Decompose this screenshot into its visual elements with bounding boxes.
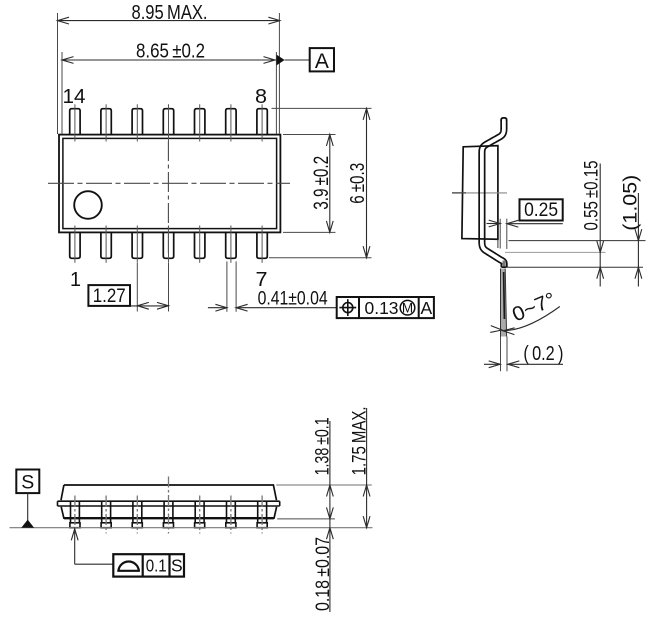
side view gull-wing lead	[479, 118, 507, 267]
dimension text 6 +-0.3	[347, 163, 369, 204]
front view lead 7	[257, 496, 267, 534]
front view body bottom edge	[64, 517, 274, 519]
dimension 8.95 MAX extension lines	[58, 13, 280, 134]
dimension 0.25 arrows	[487, 220, 563, 227]
svg-text:0.55 ±0.15: 0.55 ±0.15	[580, 160, 602, 230]
datum A solid triangle	[277, 55, 285, 66]
svg-text:M: M	[402, 301, 413, 316]
pin top row 1 (pins 8-14 side)	[70, 104, 80, 141]
dimension 1.27 line and arrows	[88, 302, 168, 309]
svg-text:0.1: 0.1	[146, 555, 167, 575]
pin bottom row 4 (pins 1-7 side)	[163, 226, 173, 263]
pin top row 2 (pins 8-14 side)	[101, 104, 111, 141]
pin top row 3 (pins 8-14 side)	[132, 104, 142, 141]
svg-text:6 ±0.3: 6 ±0.3	[347, 163, 369, 204]
datum reference A in frame	[420, 298, 432, 318]
front view lead 2	[101, 496, 111, 534]
front view lead 5	[195, 496, 205, 534]
pin number 8 label	[255, 86, 267, 108]
dimension 3.9 line and arrows	[326, 135, 333, 233]
pin bottom row 7 (pins 1-7 side)	[257, 226, 267, 263]
dimension text 1.75 MAX.	[348, 406, 370, 475]
dimension text 1.38 +-0.1	[311, 417, 333, 475]
seating plane feature frame box	[113, 554, 184, 576]
front view lead underside line	[277, 518, 335, 520]
side view horizontal centerline	[452, 192, 507, 194]
svg-text:S: S	[171, 555, 183, 575]
package body outline (top view)	[59, 135, 280, 233]
dimension 0.41 extension lines	[227, 261, 236, 311]
svg-text:0~7°: 0~7°	[509, 289, 559, 327]
dimension text (1.05)	[620, 175, 642, 231]
seating plane line	[10, 527, 373, 529]
side view body right edge extension	[497, 239, 499, 248]
dimension text 8.65 +-0.2	[136, 39, 205, 62]
datum S in frame	[171, 555, 183, 575]
datum S box	[16, 470, 39, 494]
dimension 0.41 arrows	[208, 304, 337, 311]
datum S leader and triangle	[21, 493, 34, 528]
side view body outline	[462, 146, 498, 240]
dimension text 0.18 +-0.07	[312, 537, 334, 611]
feature control frame box	[337, 297, 434, 318]
svg-text:0.25: 0.25	[524, 200, 558, 221]
svg-text:1: 1	[70, 269, 81, 291]
svg-text:8.65 ±0.2: 8.65 ±0.2	[136, 39, 205, 62]
dimension text 3.9 +-0.2	[310, 156, 333, 210]
package body inner edge (top view)	[63, 138, 277, 228]
front view lead 6	[226, 496, 236, 534]
leader to datum A box	[285, 59, 310, 61]
dimension 1.27 extension lines	[137, 263, 168, 312]
pin number 7 label	[256, 269, 268, 291]
reference line3 lead bottom	[507, 266, 643, 268]
pin top row 5 (pins 8-14 side)	[195, 104, 205, 141]
svg-text:14: 14	[63, 86, 86, 108]
svg-text:3.9 ±0.2: 3.9 ±0.2	[310, 156, 333, 210]
seating plane symbol (dome)	[117, 562, 140, 571]
position tolerance symbol	[339, 299, 356, 316]
datum A box	[310, 48, 334, 73]
pin bottom row 3 (pins 1-7 side)	[132, 226, 142, 263]
tolerance value 0.13	[365, 298, 399, 318]
pin top row 6 (pins 8-14 side)	[226, 104, 236, 141]
dimension (0.2) extension lines	[501, 337, 508, 372]
horizontal centerline (top view)	[48, 182, 290, 184]
svg-text:1.75 MAX.: 1.75 MAX.	[348, 406, 370, 475]
dimension (0.2) arrows	[484, 361, 563, 368]
svg-text:0.41±0.04: 0.41±0.04	[258, 288, 328, 310]
vertical centerline (top view)	[167, 141, 169, 253]
svg-text:0.13: 0.13	[365, 298, 399, 318]
dimension 1.75 line and arrows	[363, 408, 370, 528]
dimension 3.9 extension lines	[283, 135, 336, 233]
pin number 1 label	[70, 269, 81, 291]
pin top row 7 (pins 8-14 side)	[257, 104, 267, 141]
lead 0~7 degree splayed projection (shaded strip)	[501, 269, 507, 337]
dimension 8.65 line and arrows	[62, 57, 276, 64]
pin bottom row 5 (pins 1-7 side)	[195, 226, 205, 263]
modifier M circled	[400, 300, 415, 315]
flatness value 0.1	[146, 555, 167, 575]
dimension 0.25 tick lines	[500, 219, 507, 249]
reference line2 standoff (gray)	[505, 251, 606, 253]
svg-text:8.95 MAX.: 8.95 MAX.	[132, 1, 208, 24]
pin 1 index circle	[74, 191, 102, 219]
seating plane feature frame leader	[71, 529, 113, 564]
pin number 14 label	[63, 86, 86, 108]
front view body outline	[61, 485, 277, 519]
dimension text (0.2)	[523, 343, 563, 365]
dimension text 0.41 +-0.04	[258, 288, 328, 310]
pin bottom row 1 (pins 1-7 side)	[70, 226, 80, 263]
svg-text:1.27: 1.27	[93, 286, 126, 307]
svg-text:A: A	[420, 298, 432, 318]
angle text 0~7 deg	[509, 289, 559, 327]
dimension 1.27 box	[88, 285, 130, 307]
front view extension line body top	[276, 484, 372, 486]
dimension 8.95 MAX line and arrows	[58, 17, 280, 24]
front view mold parting band	[58, 501, 280, 506]
seating reference line1 (lead shoulder)	[509, 240, 646, 242]
front view lead 3	[132, 496, 142, 534]
svg-text:1.38 ±0.1: 1.38 ±0.1	[311, 417, 333, 475]
pin bottom row 2 (pins 1-7 side)	[101, 226, 111, 263]
dimension 8.65 extension line right	[275, 52, 277, 134]
svg-text:A: A	[315, 50, 329, 73]
pin top row 4 (pins 8-14 side)	[163, 104, 173, 141]
angle dimension arc 0~7	[490, 307, 560, 335]
svg-text:0.18 ±0.07: 0.18 ±0.07	[312, 537, 334, 611]
svg-text:(1.05): (1.05)	[620, 175, 642, 231]
dimension 0.55 line and arrows	[597, 164, 604, 287]
front view lead 4	[163, 477, 173, 534]
dimension 8.65 extension line left	[61, 52, 63, 134]
dimension (1.05) line and arrows	[635, 193, 642, 287]
svg-text:( 0.2 ): ( 0.2 )	[523, 343, 563, 365]
dimension 1.38/0.18 line and arrows	[327, 421, 334, 612]
dimension text 8.95 MAX.	[132, 1, 208, 24]
svg-text:8: 8	[255, 86, 267, 108]
pin bottom row 6 (pins 1-7 side)	[226, 226, 236, 263]
dimension 6 extension lines	[269, 108, 372, 257]
svg-text:S: S	[21, 472, 34, 494]
dimension text 0.55 +-0.15	[580, 160, 602, 230]
dimension 6 line and arrows	[363, 108, 370, 257]
dimension 0.25 box	[520, 199, 563, 221]
front view lead 1	[70, 496, 80, 534]
